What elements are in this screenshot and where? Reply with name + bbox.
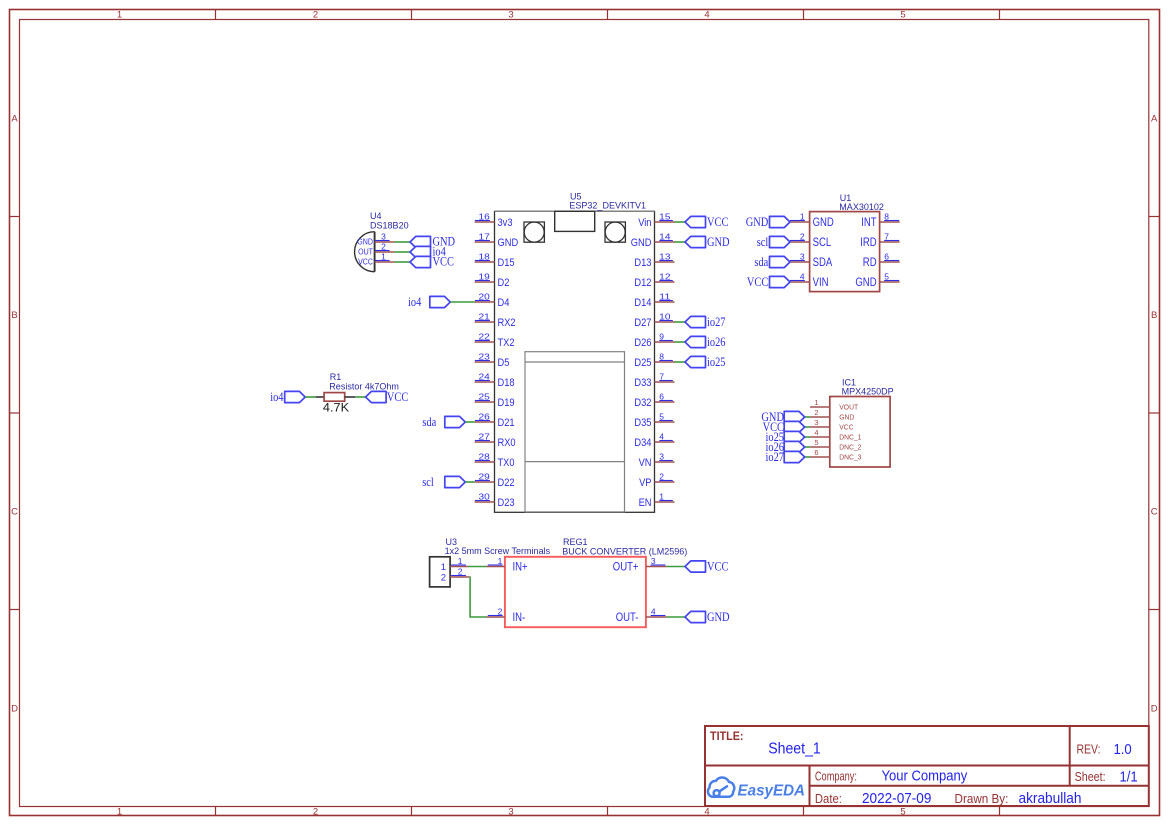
wire VCC port to IC1 pin3 [805,426,810,428]
net port io26 (IC1) [766,440,805,454]
U1 pin 8 (INT) [861,211,899,229]
U5 pin 26 (D21) [475,411,515,429]
net port io4 (R1 left) [270,390,305,404]
wire U5 to io26 port [675,341,686,343]
wire io26 port to IC1 pin5 [805,446,810,448]
svg-text:ESP32_DEVKITV1: ESP32_DEVKITV1 [569,200,646,210]
svg-text:8: 8 [884,211,889,221]
svg-text:D: D [1151,704,1158,715]
U5 pin 13 (D13) [634,251,674,269]
net port scl (U5 D22) [422,475,465,489]
svg-text:23: 23 [479,351,491,361]
wire U5 to io25 port [675,361,686,363]
svg-text:15: 15 [659,211,671,221]
net port VCC (R1 right) [366,390,409,404]
svg-text:4: 4 [814,428,818,437]
net port sda (U1) [754,255,790,269]
U5 pin 17 (GND) [475,231,519,249]
IC1 pin 2 (GND) [810,408,855,422]
svg-text:RD: RD [863,257,877,269]
svg-text:D: D [11,704,18,715]
wire REG1.OUT- to GND port [666,616,685,618]
svg-text:25: 25 [479,391,491,401]
svg-text:4: 4 [651,606,656,616]
svg-text:2022-07-09: 2022-07-09 [862,790,931,807]
svg-text:D27: D27 [634,317,651,329]
U5 pin 10 (D27) [634,311,674,329]
svg-text:RX2: RX2 [498,317,516,329]
U5 pin 6 (D32) [634,391,674,409]
connector U3 1x2 5mm Screw Terminals [430,537,551,587]
U5 pin 25 (D19) [475,391,515,409]
wire U3.1 to REG1.IN+ [468,566,487,568]
net port scl (U1) [757,235,790,249]
svg-text:DNC_2: DNC_2 [839,443,861,452]
wire io4 port to R1 [305,396,316,398]
svg-text:D21: D21 [498,417,515,429]
svg-text:REV:: REV: [1077,743,1101,757]
svg-text:VCC: VCC [433,255,454,269]
svg-text:8: 8 [659,351,664,361]
svg-text:12: 12 [659,271,671,281]
svg-text:28: 28 [479,451,491,461]
svg-text:5: 5 [900,10,905,21]
svg-text:1: 1 [814,398,818,407]
svg-text:1: 1 [800,211,805,221]
svg-text:9: 9 [659,331,664,341]
net port VCC (U4) [410,255,454,269]
net port io25 (U5 right) [685,355,726,369]
U4 pin 1 (VCC) [375,251,395,262]
svg-text:SCL: SCL [813,237,832,249]
svg-text:OUT-: OUT- [616,612,639,624]
svg-text:21: 21 [479,311,491,321]
svg-text:1.0: 1.0 [1114,741,1132,758]
svg-text:sda: sda [754,255,768,269]
svg-text:18: 18 [479,251,491,261]
svg-text:2: 2 [800,231,805,241]
svg-text:INT: INT [861,217,876,229]
svg-text:24: 24 [479,371,491,381]
U5 pin 23 (D5) [475,351,510,369]
sensor U4 DS18B20 [355,211,409,272]
net port io4 (U5 D4) [408,295,450,309]
net port io25 (IC1) [766,430,805,444]
U5 pin 20 (D4) [475,291,510,309]
svg-text:3: 3 [508,806,513,817]
U5 pin 8 (D25) [634,351,674,369]
net port GND (U1) [746,215,790,229]
wire U3.2 to REG1.IN- [469,577,486,617]
svg-text:14: 14 [659,231,671,241]
svg-text:4: 4 [659,431,664,441]
net port GND (U5 right) [685,235,730,249]
svg-text:VCC: VCC [839,423,854,432]
svg-text:22: 22 [479,331,491,341]
svg-text:2: 2 [313,10,318,21]
svg-text:TX2: TX2 [498,337,515,349]
U5 pin 5 (D35) [634,411,674,429]
svg-text:5: 5 [884,271,889,281]
svg-text:VP: VP [639,477,651,489]
U4 pin 2 (OUT) [375,241,395,252]
svg-text:2: 2 [498,606,503,616]
svg-text:VOUT: VOUT [839,403,858,412]
svg-text:1/1: 1/1 [1120,768,1138,785]
svg-text:20: 20 [479,291,491,301]
svg-text:6: 6 [884,251,889,261]
REG1 pin 1 (IN+) [487,556,528,574]
svg-text:VN: VN [639,457,652,469]
svg-text:19: 19 [479,271,491,281]
svg-text:GND: GND [357,237,373,247]
svg-text:B: B [1151,310,1157,321]
svg-text:VCC: VCC [707,559,728,573]
svg-text:GND: GND [855,277,876,289]
svg-text:7: 7 [659,371,664,381]
svg-text:DNC_1: DNC_1 [839,433,861,442]
resistor R1 4.7K [316,372,399,414]
svg-text:6: 6 [814,448,818,457]
wire U5 to io27 port [675,321,686,323]
svg-text:D13: D13 [634,257,651,269]
U5 pin 30 (D23) [475,491,515,509]
svg-text:4: 4 [800,271,805,281]
U5 pin 3 (VN) [639,451,675,469]
svg-text:D33: D33 [634,377,651,389]
U4 pin 3 (GND) [375,231,395,242]
wire R1 to VCC port [355,396,365,398]
wire io27 port to IC1 pin6 [805,456,810,458]
U1 pin 2 (SCL) [790,231,832,249]
svg-text:DNC_3: DNC_3 [839,453,861,462]
svg-text:DS18B20: DS18B20 [370,221,409,231]
svg-text:io27: io27 [707,315,726,329]
svg-text:2: 2 [441,573,446,584]
svg-text:1: 1 [441,562,446,573]
U5 pin 9 (D26) [634,331,674,349]
IC1 pin 6 (DNC_3) [810,448,861,462]
svg-text:RX0: RX0 [498,437,516,449]
svg-text:D19: D19 [498,397,515,409]
svg-text:2: 2 [659,471,664,481]
svg-text:B: B [11,310,17,321]
U5 pin 4 (D34) [634,431,674,449]
svg-text:SDA: SDA [813,257,833,269]
svg-text:3v3: 3v3 [498,217,513,229]
svg-text:3: 3 [659,451,664,461]
svg-text:10: 10 [659,311,671,321]
svg-text:3: 3 [800,251,805,261]
net port sda (U5 D21) [422,415,465,429]
svg-text:5: 5 [659,411,664,421]
svg-text:4: 4 [704,806,709,817]
wire U4.2 to io4 port [395,251,410,253]
REG1 pin 4 (OUT-) [616,606,667,624]
svg-text:D25: D25 [634,357,651,369]
svg-text:C: C [11,507,18,518]
wire io4 port to U5 pin20 [450,301,474,303]
REG1 pin 2 (IN-) [487,606,526,624]
svg-text:1: 1 [117,806,122,817]
svg-text:GND: GND [498,237,519,249]
svg-text:io4: io4 [270,390,284,404]
U1 pin 5 (GND) [855,271,899,289]
svg-text:EN: EN [639,497,652,509]
svg-text:Vin: Vin [638,217,651,229]
net port io27 (U5 right) [685,315,726,329]
svg-text:3: 3 [814,418,818,427]
svg-text:1: 1 [381,251,386,261]
U5 pin 21 (RX2) [475,311,516,329]
svg-text:VCC: VCC [747,275,768,289]
svg-text:Your Company: Your Company [882,768,968,785]
svg-text:sda: sda [422,415,436,429]
svg-text:TITLE:: TITLE: [710,729,744,743]
svg-text:BUCK CONVERTER (LM2596): BUCK CONVERTER (LM2596) [562,547,687,557]
svg-text:io26: io26 [707,335,726,349]
svg-text:A: A [1151,114,1158,125]
IC1 pin 1 (VOUT) [810,398,858,412]
svg-text:4.7K: 4.7K [323,402,350,414]
net port io27 (IC1) [766,450,805,464]
svg-text:GND: GND [746,215,769,229]
svg-text:D32: D32 [634,397,651,409]
U1 pin 1 (GND) [790,211,834,229]
net port VCC (U1) [747,275,790,289]
wire U4.3 to GND port [395,241,410,243]
svg-text:2: 2 [313,806,318,817]
U5 pin 2 (VP) [639,471,674,489]
svg-text:Drawn By:: Drawn By: [955,792,1009,806]
U1 pin 7 (IRD) [860,231,899,249]
svg-text:GND: GND [707,235,730,249]
net port VCC (IC1) [763,420,805,434]
svg-text:29: 29 [479,471,491,481]
IC1 pin 3 (VCC) [810,418,854,432]
svg-text:16: 16 [479,211,491,221]
U5 pin 14 (GND) [631,231,675,249]
svg-text:26: 26 [479,411,491,421]
IC1 pin 5 (DNC_2) [810,438,861,452]
U5 module block [525,352,625,512]
svg-text:5: 5 [900,806,905,817]
svg-text:D26: D26 [634,337,651,349]
regulator REG1 BUCK CONVERTER (LM2596) [505,537,687,627]
U1 pin 4 (VIN) [790,271,829,289]
net port GND (IC1) [761,410,804,424]
net port GND (U4) [410,235,455,249]
svg-text:7: 7 [884,231,889,241]
wire REG1.OUT+ to VCC port [666,566,685,568]
U5 pin 16 (3v3) [475,211,513,229]
svg-text:D2: D2 [498,277,510,289]
U5 button right [605,222,625,242]
svg-text:GND: GND [839,413,855,422]
svg-text:6: 6 [659,391,664,401]
net port VCC (REG1) [685,559,728,573]
U5 pin 18 (D15) [475,251,515,269]
svg-text:VCC: VCC [387,390,408,404]
IC IC1 MPX4250DP [830,377,894,467]
svg-text:GND: GND [707,610,730,624]
svg-text:1x2 5mm Screw Terminals: 1x2 5mm Screw Terminals [445,546,551,556]
svg-text:Sheet:: Sheet: [1075,770,1106,784]
wire U5 to VCC port [675,221,686,223]
svg-text:Date:: Date: [815,792,842,806]
U5 pin 28 (TX0) [475,451,515,469]
U3 pin 1 [450,556,468,567]
svg-text:io4: io4 [408,295,422,309]
U5 pin 7 (D33) [634,371,674,389]
svg-text:13: 13 [659,251,671,261]
svg-text:scl: scl [422,475,434,489]
svg-text:VCC: VCC [707,215,728,229]
U5 pin 19 (D2) [475,271,510,289]
svg-text:io27: io27 [766,450,785,464]
svg-text:C: C [1151,507,1158,518]
REG1 pin 3 (OUT+) [613,556,667,574]
svg-text:scl: scl [757,235,769,249]
svg-text:VIN: VIN [813,277,829,289]
IC U1 MAX30102 [810,193,884,292]
svg-text:GND: GND [813,217,834,229]
svg-text:D23: D23 [498,497,515,509]
svg-text:OUT+: OUT+ [613,562,639,574]
svg-text:D35: D35 [634,417,651,429]
svg-text:TX0: TX0 [498,457,515,469]
net port io26 (U5 right) [685,335,726,349]
svg-text:27: 27 [479,431,491,441]
IC1 pin 4 (DNC_1) [810,428,861,442]
svg-text:2: 2 [814,408,818,417]
U5 pin 27 (RX0) [475,431,516,449]
svg-text:EasyEDA: EasyEDA [738,782,806,799]
svg-text:1: 1 [458,556,463,566]
svg-text:akrabullah: akrabullah [1019,790,1082,807]
svg-text:1: 1 [659,491,664,501]
wire GND port to IC1 pin2 [805,416,810,418]
net port VCC (U5 right) [685,215,728,229]
svg-text:D15: D15 [498,257,515,269]
svg-text:IN+: IN+ [513,562,528,574]
svg-text:MAX30102: MAX30102 [839,202,884,212]
svg-text:A: A [11,114,18,125]
U5 pin 12 (D12) [634,271,674,289]
wire scl port to U5 pin29 [465,481,474,483]
svg-text:2: 2 [458,566,463,576]
U5 pin 1 (EN) [639,491,675,509]
svg-text:MPX4250DP: MPX4250DP [842,386,894,396]
wire sda port to U5 pin26 [465,421,474,423]
wire io25 port to IC1 pin4 [805,436,810,438]
U5 pin 22 (TX2) [475,331,515,349]
U5 USB connector [555,211,595,231]
svg-text:VCC: VCC [358,257,373,267]
U5 pin 24 (D18) [475,371,515,389]
svg-text:Sheet_1: Sheet_1 [768,740,821,757]
svg-text:D12: D12 [634,277,651,289]
U1 pin 6 (RD) [863,251,900,269]
svg-text:D5: D5 [498,357,510,369]
svg-text:30: 30 [479,491,491,501]
wire U4.1 to VCC port [395,261,410,263]
svg-text:U4: U4 [370,211,382,221]
U1 pin 3 (SDA) [790,251,833,269]
svg-text:IN-: IN- [513,612,526,624]
svg-text:IRD: IRD [860,237,876,249]
svg-text:4: 4 [704,10,709,21]
svg-text:Company:: Company: [815,769,857,783]
svg-text:3: 3 [381,231,386,241]
svg-text:io25: io25 [707,355,726,369]
svg-text:11: 11 [659,291,671,301]
U5 button left [524,222,544,242]
U5 pin 11 (D14) [634,291,674,309]
svg-text:D18: D18 [498,377,515,389]
svg-text:5: 5 [814,438,818,447]
U5 pin 15 (Vin) [638,211,674,229]
svg-text:D22: D22 [498,477,515,489]
net port GND (REG1) [685,610,730,624]
svg-text:D4: D4 [498,297,510,309]
net port io4 (U4) [410,245,446,259]
svg-text:3: 3 [651,556,656,566]
svg-text:3: 3 [508,10,513,21]
svg-text:OUT: OUT [358,247,373,257]
svg-text:2: 2 [381,241,386,251]
svg-text:1: 1 [117,10,122,21]
svg-text:17: 17 [479,231,491,241]
svg-text:D34: D34 [634,437,651,449]
svg-text:1: 1 [498,556,503,566]
module U5 ESP32_DEVKITV1 [495,191,655,512]
U5 pin 29 (D22) [475,471,515,489]
wire U5 to GND port [675,241,686,243]
svg-text:D14: D14 [634,297,651,309]
svg-text:GND: GND [631,237,652,249]
U3 pin 2 [450,566,469,577]
